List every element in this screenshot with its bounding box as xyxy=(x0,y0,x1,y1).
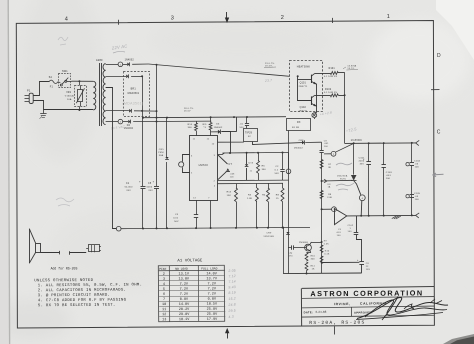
svg-text:7: 7 xyxy=(163,298,165,302)
svg-text:7.2V: 7.2V xyxy=(180,283,189,287)
svg-text:V130LA: V130LA xyxy=(65,95,74,98)
svg-text:RX: RX xyxy=(297,122,301,124)
wire Q101 collector with arrow xyxy=(312,82,317,85)
transformer T1 core xyxy=(99,63,101,126)
ground symbol output xyxy=(392,216,397,219)
wire fuse to switch xyxy=(58,81,61,84)
svg-text:0.1K: 0.1K xyxy=(324,253,329,255)
svg-text:MDA3501: MDA3501 xyxy=(128,92,140,95)
heatsink dashed outline xyxy=(290,61,323,112)
svg-text:FULL LOAD: FULL LOAD xyxy=(201,267,217,270)
wire speaker lead xyxy=(41,252,60,254)
wire collector to pin circle X xyxy=(314,111,317,114)
svg-text:4: 4 xyxy=(163,283,165,287)
transistor Q1 TIP29 box xyxy=(244,129,258,142)
wire base bus down to Q102 xyxy=(298,76,312,100)
svg-text:1. ALL RESISTORS 5%, 0.5W, C.F: 1. ALL RESISTORS 5%, 0.5W, C.F. IN OHM. xyxy=(38,283,143,288)
svg-text:100: 100 xyxy=(230,176,235,178)
svg-text:100: 100 xyxy=(415,166,420,168)
svg-text:SW1: SW1 xyxy=(62,70,68,73)
svg-text:1: 1 xyxy=(387,14,390,20)
svg-text:6: 6 xyxy=(163,293,165,297)
svg-text:10: 10 xyxy=(162,303,166,307)
svg-text:UNLESS OTHERWISE NOTED: UNLESS OTHERWISE NOTED xyxy=(34,279,93,283)
capacitor C8 .001 100 on bus xyxy=(320,150,324,152)
svg-text:.001: .001 xyxy=(386,175,392,177)
svg-text:100: 100 xyxy=(348,231,353,233)
scan paper edge left xyxy=(0,0,8,344)
svg-text:29.0V: 29.0V xyxy=(179,313,190,317)
node feed wire junction at bus xyxy=(156,64,158,66)
notes unless otherwise noted xyxy=(34,279,142,309)
svg-text:C103: C103 xyxy=(386,172,393,174)
svg-text:+: + xyxy=(153,181,155,184)
svg-text:18.5V: 18.5V xyxy=(207,303,218,307)
svg-text:R10: R10 xyxy=(311,255,316,257)
svg-text:13.7V: 13.7V xyxy=(206,277,217,281)
zone tick top c xyxy=(332,18,334,23)
svg-text:7.2V: 7.2V xyxy=(208,287,217,291)
pcb pin circle 1 xyxy=(118,62,123,67)
pencil scribble top left xyxy=(58,37,68,45)
svg-text:CR5: CR5 xyxy=(159,149,165,151)
svg-text:300: 300 xyxy=(188,127,193,129)
node SCR gate junction xyxy=(321,180,323,182)
svg-text:13.8VDC: 13.8VDC xyxy=(351,139,363,142)
svg-text:7.2V: 7.2V xyxy=(180,293,189,297)
svg-text:1K: 1K xyxy=(312,269,315,271)
wire pin2 stub to bus xyxy=(324,153,331,155)
wire BR1-b to bus xyxy=(134,110,157,112)
svg-text:Q101: Q101 xyxy=(300,82,307,84)
pcb pin circle 3 xyxy=(321,208,323,210)
svg-text:+: + xyxy=(139,181,141,184)
svg-text:2.05: 2.05 xyxy=(227,268,236,273)
svg-text:8.19: 8.19 xyxy=(228,290,236,295)
svg-text:25.0V: 25.0V xyxy=(207,308,218,312)
svg-text:10A: 10A xyxy=(67,98,72,101)
svg-text:2. ALL CAPACITORS IN MICROFARA: 2. ALL CAPACITORS IN MICROFARADS. xyxy=(38,289,126,294)
svg-text:4: 4 xyxy=(65,16,68,22)
svg-text:2200: 2200 xyxy=(359,161,365,163)
op-amp U1 LM723 regulator xyxy=(190,136,218,201)
wire R101 to output bus xyxy=(338,72,344,74)
svg-text:CT: CT xyxy=(228,163,232,166)
svg-text:Add for RS-20S: Add for RS-20S xyxy=(51,266,78,270)
svg-text:9.43: 9.43 xyxy=(228,285,236,290)
U1 pin2 wire xyxy=(217,179,288,182)
svg-text:16V: 16V xyxy=(366,269,371,271)
svg-text:SCRs: SCRs xyxy=(340,178,346,180)
svg-text:.05: .05 xyxy=(415,196,419,198)
svg-text:RS-20A, RS-20S: RS-20A, RS-20S xyxy=(309,320,365,326)
svg-text:2N3771: 2N3771 xyxy=(299,86,308,88)
svg-text:HEATSINK: HEATSINK xyxy=(297,65,311,68)
svg-text:P1: P1 xyxy=(27,89,31,93)
capacitor C5 wire xyxy=(156,122,158,187)
wire secondary tap 2 into bridge xyxy=(106,76,126,78)
svg-text:26V: 26V xyxy=(126,190,131,192)
bus wire bridge positive xyxy=(156,65,158,122)
wire plug to bottom rail xyxy=(33,101,93,110)
capacitor C104 .05 100 xyxy=(411,143,413,163)
capacitor C5 plates xyxy=(154,186,159,188)
node VR1 bottom junction xyxy=(79,106,81,110)
svg-text:R102: R102 xyxy=(325,89,332,91)
U1 pin11 wire xyxy=(196,121,198,123)
svg-text:2: 2 xyxy=(163,273,165,277)
wire raw rail stub xyxy=(236,117,238,132)
U1 pin4 wire xyxy=(217,182,283,184)
svg-text:R/5: R/5 xyxy=(203,124,208,126)
svg-text:5: 5 xyxy=(163,288,165,292)
wire U1 pin10 to Q1 base xyxy=(217,141,243,143)
capacitor C102 below ground rail xyxy=(356,216,358,232)
svg-text:7.14: 7.14 xyxy=(228,279,236,284)
svg-text:.048: .048 xyxy=(230,174,235,176)
svg-text:C5: C5 xyxy=(148,183,152,185)
svg-text:100: 100 xyxy=(386,178,391,180)
wire bottom cluster left vertical xyxy=(283,228,285,274)
svg-text:0.1: 0.1 xyxy=(275,169,279,171)
svg-text:C1: C1 xyxy=(126,183,130,185)
svg-text:6000: 6000 xyxy=(147,187,153,189)
border frame xyxy=(16,21,434,329)
U1 pin7 ground wire xyxy=(210,200,212,228)
svg-text:7.12: 7.12 xyxy=(228,274,236,279)
svg-text:1.8K: 1.8K xyxy=(247,198,253,200)
svg-text:35V: 35V xyxy=(360,164,365,166)
svg-text:F1: F1 xyxy=(50,86,54,89)
pcb pin circle 2 (D2) xyxy=(118,119,123,124)
svg-text:7.2V: 7.2V xyxy=(180,288,189,292)
svg-text:A1 VOLTAGE: A1 VOLTAGE xyxy=(177,259,203,263)
wire BR1-a to internal bus xyxy=(131,76,142,78)
svg-text:25.0V: 25.0V xyxy=(207,313,218,317)
svg-text:1N4002: 1N4002 xyxy=(125,60,135,62)
pcb pin circle SCR cathode xyxy=(359,195,365,201)
zener D3 xyxy=(246,153,248,164)
node Q101 base split xyxy=(297,75,299,77)
pcb pin circle near C2 xyxy=(288,152,290,169)
table A1 voltage xyxy=(158,259,225,322)
svg-text:C101: C101 xyxy=(359,158,366,160)
wire secondary top tap to pin circle 1 xyxy=(106,64,119,66)
speaker for RS-20S xyxy=(29,229,31,264)
wire secondary tap 4 into bridge xyxy=(106,110,129,112)
svg-text:3. @ PRINTED CIRCUIT BOARD.: 3. @ PRINTED CIRCUIT BOARD. xyxy=(38,293,110,299)
svg-text:DATE:: DATE: xyxy=(304,310,314,314)
zone tick top a xyxy=(118,20,120,25)
pcb pin circle X xyxy=(312,113,317,118)
bus X3 vertical xyxy=(321,142,323,150)
svg-text:26V: 26V xyxy=(148,190,153,192)
wire gate to SCR xyxy=(322,179,353,182)
transistor Q102 2N3771 xyxy=(311,96,313,105)
svg-text:D: D xyxy=(437,53,441,59)
svg-text:18.1V: 18.1V xyxy=(179,318,190,322)
svg-text:R11: R11 xyxy=(311,266,316,268)
svg-text:VR1: VR1 xyxy=(66,92,72,94)
resistor R8b on bus xyxy=(320,191,323,199)
resistor R8 15 xyxy=(282,183,284,188)
wire bottom cluster rail xyxy=(283,272,362,275)
svg-text:360: 360 xyxy=(262,169,267,171)
svg-text:C104: C104 xyxy=(414,160,421,162)
svg-text:470: 470 xyxy=(289,256,294,258)
left bus wire with diode D5 xyxy=(166,118,168,157)
resistor R11 1K xyxy=(305,262,308,271)
svg-text:C105: C105 xyxy=(414,193,421,195)
svg-text:0.01: 0.01 xyxy=(173,217,179,219)
bridge rectifier BR1 MDA3501 dashed outline xyxy=(124,72,150,117)
capacitor C103 .001 100 xyxy=(383,143,385,165)
svg-text:(MDA3501): (MDA3501) xyxy=(123,102,144,106)
svg-text:2N3608: 2N3608 xyxy=(299,242,308,244)
capacitor C2 0.1 50V xyxy=(282,153,284,170)
zone tick right a xyxy=(431,89,440,91)
svg-text:15.2: 15.2 xyxy=(228,296,236,301)
diode D5 on left bus xyxy=(165,157,168,159)
svg-text:PIN#: PIN# xyxy=(159,268,166,271)
diode D6 1N4002 xyxy=(211,131,218,133)
resistor R6 360 xyxy=(258,153,260,161)
wire pin 2 to diode D2 xyxy=(123,121,129,123)
resistor RX selectable box xyxy=(287,119,311,131)
wire bridge internal vertical xyxy=(142,76,144,117)
svg-text:D2: D2 xyxy=(127,125,131,127)
wire main ground rail xyxy=(121,227,310,228)
svg-text:1n: 1n xyxy=(250,170,253,172)
svg-text:100: 100 xyxy=(415,199,420,201)
resistor R10 300 xyxy=(310,251,311,253)
svg-text:11: 11 xyxy=(162,308,166,312)
triangle driver symbol xyxy=(335,209,347,225)
svg-text:.01: .01 xyxy=(239,124,243,126)
svg-text:R13: R13 xyxy=(227,192,232,194)
zone tick bottom with arrow xyxy=(227,331,229,339)
svg-text:3-24-88: 3-24-88 xyxy=(315,310,326,314)
svg-text:13.8/9A: 13.8/9A xyxy=(347,64,356,67)
resistor R15 xyxy=(210,117,212,122)
resistor R3 1.8K xyxy=(256,184,258,189)
wire raw DC rail xyxy=(142,117,286,118)
svg-text:17.9V: 17.9V xyxy=(207,318,218,322)
wire D2 rail xyxy=(133,120,211,123)
svg-text:5.6K: 5.6K xyxy=(324,244,329,246)
svg-text:5. RX TO BE SELECTED IN TEST.: 5. RX TO BE SELECTED IN TEST. xyxy=(38,304,116,309)
node VR1 top junction xyxy=(79,81,81,85)
resistor R7 on bus xyxy=(320,160,323,169)
pencil scribbles near SCR xyxy=(336,163,352,165)
wire RX box left down xyxy=(288,131,290,274)
ground symbol at AC input xyxy=(43,110,45,114)
wire pin X into RX box xyxy=(314,117,316,119)
svg-text:100: 100 xyxy=(324,146,329,148)
capacitor C101 2200 35V xyxy=(368,143,370,162)
svg-text:4.3: 4.3 xyxy=(228,315,234,319)
svg-text:15K: 15K xyxy=(227,195,232,197)
svg-text:2N3771: 2N3771 xyxy=(299,110,308,112)
diode D2 1N4002 xyxy=(128,120,130,124)
capacitor C8b electrolytic 22uF xyxy=(359,261,364,263)
svg-text:7.2V: 7.2V xyxy=(208,293,217,297)
bridge diode BR1-a xyxy=(126,75,128,79)
resistor R9 5.6K on bus xyxy=(320,245,323,253)
transformer T1 secondary winding xyxy=(103,64,106,125)
capacitor C7 0.01 100 xyxy=(246,117,248,123)
SCR D101 crowbar xyxy=(353,143,355,174)
capacitor C1 52000uF wire xyxy=(142,118,144,186)
svg-text:3: 3 xyxy=(171,16,174,22)
output bus from emitter resistors xyxy=(344,72,346,143)
resistor R12 on bus xyxy=(320,256,323,264)
svg-text:Q102: Q102 xyxy=(300,107,307,109)
wire Q102 emitter to R102 xyxy=(315,95,330,97)
svg-text:D#3: D#3 xyxy=(249,162,254,164)
svg-text:20.2V: 20.2V xyxy=(179,308,190,312)
svg-text:C4p: C4p xyxy=(288,252,293,254)
zone tick top b with arrow xyxy=(226,12,228,19)
svg-text:2: 2 xyxy=(281,15,284,21)
svg-text:P6NI: P6NI xyxy=(158,152,164,154)
svg-text:5A: 5A xyxy=(49,76,53,79)
wire Q1 emitter to driver rail xyxy=(253,142,303,145)
title block xyxy=(301,287,434,327)
svg-text:CR9: CR9 xyxy=(266,233,272,235)
svg-text:R10: R10 xyxy=(325,250,330,252)
wire D6 corner down to pin3 rail xyxy=(221,132,230,154)
wire switch to transformer primary xyxy=(72,80,94,82)
wire Q3 base with capacitor 470 xyxy=(288,247,291,249)
svg-text:3: 3 xyxy=(163,278,165,282)
svg-text:23 0.7%: 23 0.7% xyxy=(265,63,274,65)
wire speaker lead 2 xyxy=(70,252,87,254)
svg-text:R1 3R: R1 3R xyxy=(292,127,299,129)
transistor Q101 2N3771 xyxy=(311,75,313,83)
svg-text:38A: 38A xyxy=(159,154,164,157)
wire secondary center tap down to ground rail xyxy=(106,88,117,229)
svg-text:3K: 3K xyxy=(328,167,331,169)
svg-text:0.1 10W 5%: 0.1 10W 5% xyxy=(324,76,337,78)
wire plug to fuse xyxy=(33,82,49,96)
U1 pin3 node rail xyxy=(217,154,222,156)
U1 pin6-5 external loop xyxy=(183,155,190,162)
capacitor C3 0.01 50V on U1 pin13 xyxy=(196,200,198,215)
svg-text:7.2V: 7.2V xyxy=(208,282,217,286)
svg-text:24.8: 24.8 xyxy=(227,302,236,307)
svg-text:.001: .001 xyxy=(324,143,329,145)
output ground terminal xyxy=(416,213,420,215)
zener D10 1N5230B xyxy=(286,232,289,234)
svg-text:1N5230B: 1N5230B xyxy=(263,236,274,238)
output terminal arrow xyxy=(416,140,420,143)
svg-text:BR1: BR1 xyxy=(131,87,137,90)
svg-text:ASTRON CORPORATION: ASTRON CORPORATION xyxy=(310,288,423,298)
svg-text:12: 12 xyxy=(162,313,166,317)
svg-text:2.0K: 2.0K xyxy=(327,197,332,199)
wire output ground rail xyxy=(347,214,416,217)
svg-text:R14: R14 xyxy=(188,124,193,126)
zone tick bottom b xyxy=(334,326,336,334)
pcb pin circle 2 output sense xyxy=(331,151,336,156)
svg-text:C: C xyxy=(437,129,441,135)
resistor R13 15K xyxy=(236,183,238,188)
scan shadow bottom-right corner xyxy=(443,334,474,344)
pencil scribble left xyxy=(56,198,74,206)
svg-text:0.0V: 0.0V xyxy=(208,298,217,302)
transistor Q2 (CT) trimmer xyxy=(218,155,228,164)
wire pin2 diagonal to output rail xyxy=(335,143,353,152)
wire Q101 emitter to R101 xyxy=(315,73,330,75)
svg-text:2N4002: 2N4002 xyxy=(294,148,303,150)
wire Q102 collector with arrow xyxy=(312,104,317,107)
svg-text:26.5V: 26.5V xyxy=(184,110,191,112)
wire pin 1 to diode D1 xyxy=(123,64,128,66)
svg-text:300: 300 xyxy=(311,258,316,260)
svg-text:R101: R101 xyxy=(329,68,336,70)
svg-text:TIP29: TIP29 xyxy=(245,132,253,134)
svg-text:29.5: 29.5 xyxy=(227,308,236,313)
resistor R14 300 xyxy=(196,121,198,123)
wire Q3 collector to bus xyxy=(310,242,312,245)
capacitor C105 .05 100 xyxy=(410,194,414,196)
connector jack xyxy=(89,245,100,252)
svg-text:13: 13 xyxy=(162,318,166,322)
svg-text:C102: C102 xyxy=(348,225,354,227)
wire D1 to heatsink (sloped feed wire) xyxy=(132,63,148,65)
svg-text:.05: .05 xyxy=(415,163,419,165)
pencil arrow right border xyxy=(433,173,444,176)
svg-text:13.8V: 13.8V xyxy=(179,278,190,282)
svg-text:A280: A280 xyxy=(96,59,103,62)
resistor R4 360 xyxy=(268,183,270,188)
pcb pin circle ground xyxy=(116,226,121,231)
svg-text:14.0V: 14.0V xyxy=(206,272,217,276)
wire mid rail to C8b xyxy=(322,261,360,263)
svg-text:50V: 50V xyxy=(275,173,280,175)
svg-text:LM723: LM723 xyxy=(199,163,209,167)
svg-text:IRVINE,: IRVINE, xyxy=(334,302,351,306)
bridge diode BR1-b xyxy=(129,109,131,113)
svg-text:NO LOAD: NO LOAD xyxy=(175,268,188,271)
svg-text:50V: 50V xyxy=(174,221,179,223)
svg-text:0.0V: 0.0V xyxy=(180,298,189,302)
wire secondary bottom tap to pin circle 2 xyxy=(106,121,119,123)
svg-text:1A: 1A xyxy=(328,186,331,189)
svg-text:1N523DA: 1N523DA xyxy=(337,174,348,177)
signature xyxy=(357,297,448,318)
svg-text:1N4002: 1N4002 xyxy=(214,127,223,129)
svg-text:14.8V: 14.8V xyxy=(179,303,190,307)
svg-text:.001: .001 xyxy=(336,232,341,234)
svg-text:4. C7-C8 ADDED FOR R.F BY PASS: 4. C7-C8 ADDED FOR R.F BY PASSING xyxy=(38,299,127,304)
capacitor C1 plates xyxy=(141,186,146,188)
svg-text:R8: R8 xyxy=(276,195,280,197)
svg-text:52,000: 52,000 xyxy=(125,187,133,189)
svg-text:100: 100 xyxy=(337,235,342,237)
wire output rail 13.8VDC xyxy=(345,142,416,145)
wire SCR cathode to ground xyxy=(360,201,363,216)
svg-text:13.1V: 13.1V xyxy=(178,273,189,277)
